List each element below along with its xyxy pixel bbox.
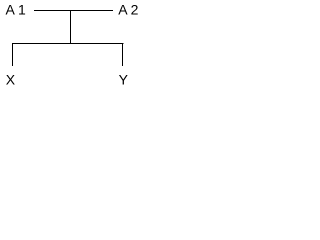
svg-text:A 2: A 2: [118, 2, 138, 18]
wire lower bus: [12, 43, 124, 45]
wire center vertical from top bus to lower bus: [70, 10, 72, 43]
wire top bus from A1 to A2: [34, 10, 113, 12]
svg-text:Y: Y: [119, 72, 129, 88]
svg-text:X: X: [6, 72, 16, 88]
wire right drop to Y: [122, 43, 124, 66]
wire left drop to X: [12, 43, 14, 66]
svg-text:A 1: A 1: [6, 2, 26, 18]
